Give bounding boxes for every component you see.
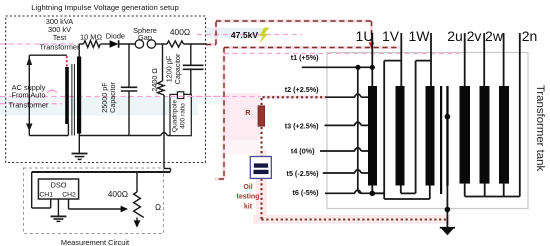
svg-text:CH2: CH2 [62,192,76,199]
svg-text:2w: 2w [485,28,504,44]
svg-text:400Ω: 400Ω [108,189,128,199]
svg-text:t4 (0%): t4 (0%) [291,146,315,155]
svg-text:10 MΩ: 10 MΩ [80,32,102,41]
svg-text:Transformer: Transformer [40,42,81,51]
svg-text:Lightning Impulse Voltage gene: Lightning Impulse Voltage generation set… [31,3,178,12]
svg-text:Capacitor: Capacitor [108,82,117,113]
svg-text:Test: Test [53,33,67,42]
svg-text:CH1: CH1 [39,192,53,199]
svg-text:Transformer: Transformer [9,100,50,109]
svg-text:Ω: Ω [155,203,161,212]
svg-text:2u: 2u [447,28,463,44]
svg-text:1V: 1V [382,28,400,44]
svg-text:kit: kit [244,203,253,210]
svg-text:DSO: DSO [50,181,66,190]
svg-text:2v: 2v [467,28,482,44]
svg-text:47.5kV: 47.5kV [231,30,259,40]
svg-text:Measurement Circuit: Measurement Circuit [61,238,129,246]
svg-text:t2 (+2.5%): t2 (+2.5%) [285,85,319,94]
svg-text:2400 Ω: 2400 Ω [150,68,159,92]
svg-text:t5 (-2.5%): t5 (-2.5%) [287,169,320,178]
svg-text:t3 (+2.5%): t3 (+2.5%) [285,121,319,130]
svg-text:Transformer tank: Transformer tank [534,85,546,172]
svg-text:Oil: Oil [243,184,252,191]
svg-text:2n: 2n [522,28,538,44]
svg-text:Capacitor: Capacitor [173,53,182,84]
svg-text:Diode: Diode [106,32,125,41]
svg-text:400 ratio: 400 ratio [179,103,186,129]
svg-text:t6 (-5%): t6 (-5%) [293,188,320,197]
svg-text:Quadripole: Quadripole [171,100,178,133]
svg-text:1U: 1U [356,28,374,44]
svg-text:t1 (+5%): t1 (+5%) [291,53,319,62]
svg-text:Gap: Gap [138,33,152,42]
svg-text:testing: testing [237,194,260,201]
svg-text:400Ω: 400Ω [170,27,190,37]
svg-text:R: R [245,108,251,117]
svg-text:From Auto: From Auto [11,91,45,100]
svg-text:1W: 1W [409,28,431,44]
